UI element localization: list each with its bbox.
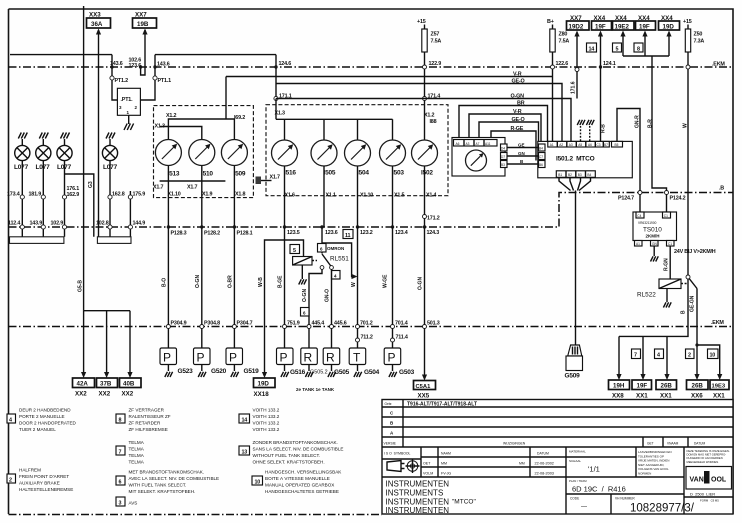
wire G523 column xyxy=(167,181,169,348)
svg-text:19B: 19B xyxy=(137,21,149,28)
lamp L077 no.3 xyxy=(57,133,72,237)
svg-text:VH NUMMER: VH NUMMER xyxy=(615,497,635,501)
svg-text:O-GN: O-GN xyxy=(418,277,424,290)
svg-text:122.6: 122.6 xyxy=(556,61,569,67)
boxed 7 xyxy=(632,349,641,359)
svg-text:R-B: R-B xyxy=(601,124,607,133)
svg-text:14: 14 xyxy=(242,418,248,424)
svg-text:VNAAM: VNAAM xyxy=(667,442,679,446)
svg-text:TS010: TS010 xyxy=(643,227,662,234)
svg-text:124.6: 124.6 xyxy=(279,61,292,67)
svg-text:19D: 19D xyxy=(258,381,270,388)
svg-text:5: 5 xyxy=(616,47,619,53)
svg-text:B4: B4 xyxy=(587,173,591,177)
X1.3 feed drop xyxy=(275,99,277,120)
connector 19D/XX18 xyxy=(254,378,276,388)
svg-text:I505: I505 xyxy=(324,170,336,177)
wire to 19H xyxy=(618,336,620,374)
svg-text:2: 2 xyxy=(9,478,12,484)
bus lines xyxy=(9,62,734,327)
svg-text:AVS: AVS xyxy=(129,501,138,506)
svg-text:173.4: 173.4 xyxy=(7,192,20,198)
svg-text:124.3: 124.3 xyxy=(427,230,440,236)
svg-text:BR: BR xyxy=(517,101,525,107)
svg-text:XX18: XX18 xyxy=(254,391,270,398)
dashed box group 1 xyxy=(154,106,254,198)
svg-text:X1.10: X1.10 xyxy=(360,193,373,199)
svg-text:D4: D4 xyxy=(501,147,505,151)
MTCO bottom pin strip xyxy=(556,171,595,178)
boxed 4 xyxy=(655,349,664,359)
svg-text:GE: GE xyxy=(518,143,525,148)
wire B xyxy=(507,163,539,165)
node 171.1 xyxy=(274,96,278,100)
sensor G504 xyxy=(349,348,366,365)
svg-text:C7: C7 xyxy=(539,155,543,159)
svg-text:FV-JG: FV-JG xyxy=(441,472,451,476)
wire O-GN xyxy=(276,99,571,142)
svg-text:G5-B: G5-B xyxy=(78,280,84,292)
boxed 4 xyxy=(332,271,341,280)
internal bus top box2 xyxy=(276,118,393,120)
svg-text:R-GN: R-GN xyxy=(664,258,670,271)
svg-text:X1.9: X1.9 xyxy=(202,192,212,198)
svg-text:HANDGESCHALTETES GETRIEBE: HANDGESCHALTETES GETRIEBE xyxy=(265,489,339,494)
svg-text:INSTRUMENTEN: INSTRUMENTEN xyxy=(386,480,450,489)
wire GN-R xyxy=(617,109,640,214)
ground PT1 xyxy=(128,115,130,124)
svg-text:NAAM: NAAM xyxy=(441,452,451,456)
svg-text:DATUM: DATUM xyxy=(694,442,705,446)
MTCO unit I501.2 xyxy=(538,141,633,177)
wire Z80 to A1 xyxy=(552,69,554,141)
wire BR xyxy=(459,106,548,142)
svg-text:INSTRUMENTEN: INSTRUMENTEN xyxy=(386,506,450,515)
svg-text:143.9: 143.9 xyxy=(30,221,43,227)
TS010 / RL522 xyxy=(619,212,720,374)
svg-text:MANUAL OPERATED GEARBOX: MANUAL OPERATED GEARBOX xyxy=(265,483,334,488)
MTCO output bundle xyxy=(559,178,591,191)
svg-text:HANDGESCH. VERSNELLINGSBAK: HANDGESCH. VERSNELLINGSBAK xyxy=(265,470,342,475)
svg-text:DOOR 2 HANDOPERATED: DOOR 2 HANDOPERATED xyxy=(19,421,77,426)
svg-text:143.6: 143.6 xyxy=(157,62,170,68)
svg-text:RALENTISSEUR ZF: RALENTISSEUR ZF xyxy=(129,414,171,419)
svg-text:P: P xyxy=(388,351,396,365)
node circles row 112.4 on bus xyxy=(20,225,24,229)
svg-text:XX1: XX1 xyxy=(636,393,648,400)
svg-text:19E2: 19E2 xyxy=(615,24,630,31)
sensor G520 xyxy=(194,348,211,365)
svg-text:P128.2: P128.2 xyxy=(204,231,220,237)
bottom right connectors xyxy=(609,336,730,399)
svg-text:123.6: 123.6 xyxy=(129,63,142,69)
project titles xyxy=(386,480,450,516)
svg-text:I513: I513 xyxy=(168,171,180,178)
svg-text:B3: B3 xyxy=(501,163,505,167)
connector C5A1/XX5 xyxy=(414,381,436,390)
bus of XX4 connectors xyxy=(623,55,669,57)
node 171.4 xyxy=(423,97,427,101)
internal bus top box1 xyxy=(168,119,234,140)
svg-text:OHNE SELEKT. KRAFTSTOFBEH.: OHNE SELEKT. KRAFTSTOFBEH. xyxy=(253,460,325,465)
legend xyxy=(7,408,343,507)
svg-text:VOITH 133.2: VOITH 133.2 xyxy=(253,421,280,426)
svg-text:123.5: 123.5 xyxy=(287,230,300,236)
svg-text:19H: 19H xyxy=(613,383,625,390)
svg-text:I516: I516 xyxy=(284,170,296,177)
svg-text:7.5A: 7.5A xyxy=(431,39,442,45)
svg-text:8: 8 xyxy=(119,418,122,424)
svg-text:8: 8 xyxy=(637,47,640,53)
pin strip A6 A3 A7 A11 xyxy=(454,140,498,147)
svg-text:C4: C4 xyxy=(637,214,641,218)
wire G3 branch xyxy=(65,174,94,237)
svg-text:2e TANK 1e TANK: 2e TANK 1e TANK xyxy=(296,387,335,392)
svg-text:DOM EN MAG NIET GEREPRO-: DOM EN MAG NIET GEREPRO- xyxy=(687,453,727,457)
svg-text:3: 3 xyxy=(119,501,122,507)
svg-text:144.9: 144.9 xyxy=(133,221,146,227)
node 122.6 xyxy=(551,65,555,69)
node 123.2 xyxy=(356,225,359,228)
wire W-GE to G503 xyxy=(392,227,394,348)
legend item 7 xyxy=(116,446,125,455)
svg-text:INSTRUMENTS: INSTRUMENTS xyxy=(386,489,444,498)
legend item 10 xyxy=(252,476,263,485)
svg-text:C5A1: C5A1 xyxy=(416,384,432,390)
svg-text:VERSIE: VERSIE xyxy=(384,442,397,446)
ISO symbol cell xyxy=(382,447,421,477)
svg-text:711.2: 711.2 xyxy=(361,335,373,341)
svg-text:.PT1.: .PT1. xyxy=(121,97,134,103)
svg-text:701.4: 701.4 xyxy=(395,321,408,327)
wire W-B to 19D xyxy=(265,240,285,372)
svg-text:102.9: 102.9 xyxy=(51,221,64,227)
svg-text:122.9: 122.9 xyxy=(429,61,442,67)
svg-text:VOITH 133.2: VOITH 133.2 xyxy=(253,414,280,419)
svg-text:W-GE: W-GE xyxy=(383,274,389,288)
svg-text:W: W xyxy=(683,123,689,128)
svg-text:19F: 19F xyxy=(637,383,648,390)
svg-text:B: B xyxy=(681,310,687,314)
svg-text:X1.7: X1.7 xyxy=(270,175,280,181)
svg-text:B-O: B-O xyxy=(162,278,168,287)
svg-text:A6: A6 xyxy=(588,143,592,147)
svg-text:A5: A5 xyxy=(578,143,582,147)
legend item 6 xyxy=(116,476,125,485)
coil ground xyxy=(301,265,303,279)
svg-text:MET BRANDSTOFTANKOMSCHAK.: MET BRANDSTOFTANKOMSCHAK. xyxy=(129,470,205,475)
svg-text:NORMEN: NORMEN xyxy=(638,472,651,476)
svg-text:I509: I509 xyxy=(234,171,246,178)
svg-text:GET: GET xyxy=(647,442,654,446)
svg-text:19D2: 19D2 xyxy=(569,24,584,31)
svg-text:X1.10: X1.10 xyxy=(168,192,181,198)
MTCO left pin boxes xyxy=(539,144,546,151)
svg-text:W: W xyxy=(351,282,357,287)
svg-text:VAN: VAN xyxy=(690,477,704,484)
svg-text:V-R: V-R xyxy=(513,72,522,78)
svg-text:B3: B3 xyxy=(578,173,582,177)
node 122.9 xyxy=(423,65,427,69)
svg-text:C3: C3 xyxy=(597,143,601,147)
svg-text:143.6: 143.6 xyxy=(110,61,123,67)
svg-text:I S O SYMBOOL: I S O SYMBOOL xyxy=(384,452,410,456)
svg-text:XX1: XX1 xyxy=(660,393,672,400)
svg-text:A11: A11 xyxy=(485,142,491,146)
svg-text:XX8: XX8 xyxy=(612,393,624,400)
svg-text:124.1: 124.1 xyxy=(603,61,616,67)
svg-text:B1: B1 xyxy=(558,173,562,177)
wire PT1.1 leg xyxy=(140,55,155,100)
svg-text:A6: A6 xyxy=(456,142,460,146)
wire top bus y54.6 right xyxy=(155,54,276,56)
svg-text:2KM/H: 2KM/H xyxy=(646,234,660,239)
svg-text:Z80: Z80 xyxy=(559,32,568,38)
wire to 171.4 xyxy=(424,69,426,99)
svg-text:37B: 37B xyxy=(100,381,112,388)
svg-text:O-GN: O-GN xyxy=(511,94,525,100)
svg-text:G519: G519 xyxy=(244,368,260,375)
gauge I504 xyxy=(345,140,371,166)
node 124.3 xyxy=(423,225,426,228)
boxed 2 xyxy=(686,349,695,359)
wire GE xyxy=(507,147,539,149)
lamp bus 2 xyxy=(97,237,131,244)
svg-text:6D 19C / R416: 6D 19C / R416 xyxy=(572,485,626,494)
connector 19E3/XX1 xyxy=(710,380,729,390)
gauge I510 xyxy=(189,140,215,166)
svg-text:—: — xyxy=(581,504,587,510)
svg-text:445.4: 445.4 xyxy=(312,321,325,327)
sensor G505.2 xyxy=(301,348,318,365)
svg-text:VOITH 133.2: VOITH 133.2 xyxy=(253,408,280,413)
wire 19B feed xyxy=(141,30,145,75)
relay box PT1 xyxy=(117,88,140,115)
relay RL522 coil xyxy=(659,279,681,289)
switch blade xyxy=(322,254,331,266)
svg-text:XX5: XX5 xyxy=(418,393,430,400)
bus B mid xyxy=(9,193,734,228)
gauge I509 xyxy=(221,140,247,166)
svg-text:I510: I510 xyxy=(201,171,213,178)
svg-text:MEEGEDEELD WORDEN.: MEEGEDEELD WORDEN. xyxy=(687,460,720,464)
svg-text:O-GN: O-GN xyxy=(195,275,201,288)
svg-text:102.8: 102.8 xyxy=(96,221,109,227)
svg-text:PT1.1: PT1.1 xyxy=(158,78,172,84)
svg-text:"MTCO": "MTCO" xyxy=(452,499,476,506)
connector 40B/XX2 xyxy=(120,378,142,388)
svg-text:DEUR 2 HANDBEDIEND: DEUR 2 HANDBEDIEND xyxy=(19,408,71,413)
scale cell xyxy=(566,447,636,514)
svg-text:5: 5 xyxy=(293,248,296,254)
lamp L077 no.4 xyxy=(102,133,117,237)
svg-text:DEZE TEKENING IS ONZE EIGEN-: DEZE TEKENING IS ONZE EIGEN- xyxy=(687,449,730,453)
svg-text:TUER 2 MANUEL: TUER 2 MANUEL xyxy=(19,427,56,432)
svg-text:175.9: 175.9 xyxy=(133,192,146,198)
svg-text:G516: G516 xyxy=(290,369,306,376)
svg-text:I504: I504 xyxy=(357,170,369,177)
wire W branch xyxy=(322,243,355,277)
wire G519 column xyxy=(233,181,235,348)
svg-text:GN-O: GN-O xyxy=(325,289,331,302)
svg-text:Z57: Z57 xyxy=(431,32,440,38)
RL551 and mid sensors xyxy=(277,215,440,400)
box2 bottom stubs xyxy=(285,166,425,227)
svg-text:123.4: 123.4 xyxy=(395,230,408,236)
wire G5-B vertical xyxy=(83,6,85,311)
wire GN xyxy=(507,155,539,157)
relay RL551 switch feed xyxy=(321,227,323,254)
svg-text:B5: B5 xyxy=(615,143,619,147)
bus EKM bottom xyxy=(9,326,734,328)
svg-text:RL551: RL551 xyxy=(330,256,349,263)
boxed 8 xyxy=(634,43,643,52)
svg-text:X1.1: X1.1 xyxy=(326,193,336,199)
svg-text:123.6: 123.6 xyxy=(325,230,338,236)
svg-text:FREIN POINT D'ARRET: FREIN POINT D'ARRET xyxy=(19,474,69,479)
svg-text:HALFREM: HALFREM xyxy=(19,468,41,473)
svg-text:AUXILIARY BRAKE: AUXILIARY BRAKE xyxy=(19,481,60,486)
connector 26B/XX1 xyxy=(656,380,677,390)
svg-text:I88: I88 xyxy=(430,119,437,125)
svg-text:A7: A7 xyxy=(476,142,480,146)
svg-text:AVEC LA SELECT. NIV. DE COMBUS: AVEC LA SELECT. NIV. DE COMBUSTIBLE xyxy=(129,476,220,481)
gauge I513 xyxy=(155,140,181,166)
lamps xyxy=(7,133,145,244)
svg-text:C1: C1 xyxy=(668,242,672,246)
RL522 switch xyxy=(686,275,690,279)
svg-text:DATUM: DATUM xyxy=(537,452,549,456)
svg-text:7.3A: 7.3A xyxy=(694,39,705,45)
wire V-R xyxy=(226,76,553,78)
relay RL551 coil feed xyxy=(285,240,304,257)
svg-text:.B: .B xyxy=(719,186,724,192)
svg-text:WITHOUT FUEL TANK SELECT.: WITHOUT FUEL TANK SELECT. xyxy=(253,453,321,458)
svg-text:A3: A3 xyxy=(466,142,470,146)
svg-text:B4: B4 xyxy=(539,147,543,151)
svg-text:P304.8: P304.8 xyxy=(204,321,220,327)
svg-text:4: 4 xyxy=(9,418,12,424)
boxed 11 xyxy=(343,230,353,239)
svg-text:T916-ALT/T917-ALT/T918-ALT: T916-ALT/T917-ALT/T918-ALT xyxy=(407,402,477,408)
svg-text:T: T xyxy=(353,351,361,365)
svg-text:751.9: 751.9 xyxy=(287,321,300,327)
svg-text:A2: A2 xyxy=(559,143,563,147)
svg-text:701.2: 701.2 xyxy=(360,321,373,327)
svg-text:+15: +15 xyxy=(683,19,692,25)
legend item 3 xyxy=(116,497,125,506)
svg-text:TELMA: TELMA xyxy=(129,453,145,458)
lamp L077 no.2 xyxy=(36,133,51,237)
property text xyxy=(683,447,685,514)
left sensor columns xyxy=(73,181,285,398)
wire GE-O 2 xyxy=(479,122,539,153)
boxed 5 xyxy=(613,43,622,52)
svg-text:TELMA: TELMA xyxy=(129,460,145,465)
svg-text:P128.1: P128.1 xyxy=(237,231,253,237)
svg-text:G505: G505 xyxy=(334,369,350,376)
wire R-B to C3 xyxy=(600,67,602,141)
wire O-GN to C5A1 xyxy=(424,227,426,375)
tolerances text xyxy=(638,450,672,476)
svg-text:.EKM: .EKM xyxy=(711,320,724,326)
svg-text:G523: G523 xyxy=(178,368,194,375)
svg-text:162.9: 162.9 xyxy=(67,192,80,198)
svg-text:P304.7: P304.7 xyxy=(237,321,253,327)
svg-text:19F: 19F xyxy=(595,24,606,31)
svg-text:XX1: XX1 xyxy=(713,393,725,400)
svg-text:L077: L077 xyxy=(14,164,29,171)
node 123.4 xyxy=(391,225,394,228)
svg-text:X1.2: X1.2 xyxy=(424,113,434,119)
sensor G519 xyxy=(226,348,243,365)
svg-text:22-06-2002: 22-06-2002 xyxy=(535,462,554,466)
node 102.6/123.6 xyxy=(139,65,142,68)
legend item 4 xyxy=(7,414,16,423)
sensor G503 xyxy=(384,348,401,365)
svg-text:VOLM: VOLM xyxy=(423,472,433,476)
connector 26B/XX6 xyxy=(687,380,709,390)
svg-text:162.8: 162.8 xyxy=(112,192,125,198)
boxed 5 xyxy=(290,245,300,254)
svg-text:SCHAAL: SCHAAL xyxy=(569,459,581,463)
svg-text:171.2: 171.2 xyxy=(427,216,440,222)
svg-text:GN: GN xyxy=(518,151,525,156)
svg-text:171.6: 171.6 xyxy=(571,81,577,94)
wire to 37B xyxy=(106,311,108,372)
wire 175.9/144.9 drop xyxy=(129,191,131,237)
svg-text:I69.2: I69.2 xyxy=(234,115,245,121)
wire B-R xyxy=(652,56,667,213)
svg-text:CODE: CODE xyxy=(570,497,579,501)
svg-text:40B: 40B xyxy=(123,381,135,388)
wire GE-GN xyxy=(697,289,720,375)
svg-text:G504: G504 xyxy=(364,369,380,376)
svg-text:V-R: V-R xyxy=(513,109,522,115)
svg-text:B7: B7 xyxy=(604,143,608,147)
svg-text:26B: 26B xyxy=(692,383,704,390)
svg-text:X1.5: X1.5 xyxy=(394,193,404,199)
svg-text:G509: G509 xyxy=(565,373,581,380)
svg-text:19F: 19F xyxy=(639,24,650,31)
wire O-GN to G505.2 xyxy=(309,269,322,348)
svg-text:19E3: 19E3 xyxy=(712,384,726,390)
svg-text:P: P xyxy=(280,351,288,365)
names/dates table xyxy=(421,447,566,477)
wire GE-O xyxy=(276,84,562,142)
svg-text:Gebr.: Gebr. xyxy=(385,402,393,406)
connector G509 xyxy=(568,345,582,356)
svg-text:PLAN / TRAM: PLAN / TRAM xyxy=(569,479,587,483)
wire 36A feed xyxy=(98,30,100,237)
svg-text:B6: B6 xyxy=(539,163,543,167)
boxed 14 xyxy=(587,43,597,52)
svg-text:2: 2 xyxy=(688,353,691,359)
wire to 26B xyxy=(666,336,668,374)
svg-text:ZONDER BRANDSTOFTANKOMSCHAK.: ZONDER BRANDSTOFTANKOMSCHAK. xyxy=(253,440,338,445)
wire R-GN xyxy=(669,246,671,279)
svg-text:ZF HILFSBREMSE: ZF HILFSBREMSE xyxy=(129,427,168,432)
MTCO xyxy=(452,120,632,380)
svg-text:A1: A1 xyxy=(550,143,554,147)
ground stubs A5 A6 xyxy=(581,126,590,141)
svg-text:42A: 42A xyxy=(77,381,89,388)
svg-text:X1.7: X1.7 xyxy=(153,185,163,191)
bus 42A/37B/40B xyxy=(84,310,130,312)
svg-text:HALTESTELLENBREMSE: HALTESTELLENBREMSE xyxy=(19,487,73,492)
svg-text:G503: G503 xyxy=(399,369,415,376)
svg-text:W-B: W-B xyxy=(258,277,264,287)
